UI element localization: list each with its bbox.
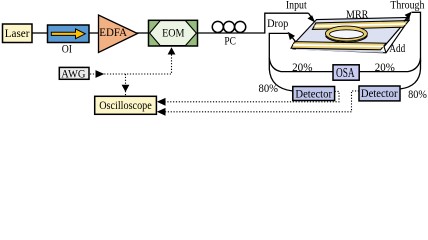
svg-text:EDFA: EDFA (99, 25, 127, 39)
laser box (3, 24, 33, 43)
drop wire left riser (269, 33, 288, 60)
svg-text:Add: Add (389, 43, 405, 55)
svg-text:AWG: AWG (61, 68, 86, 81)
svg-text:Drop: Drop (267, 18, 288, 30)
svg-text:Through: Through (390, 0, 424, 11)
arrowhead 2 into oscilloscope right (157, 108, 166, 116)
AWG box (59, 67, 89, 79)
isolator arrow glyph (51, 29, 85, 39)
detector left box (293, 87, 335, 101)
wire OI to EDFA (89, 32, 99, 34)
MRR chip side faces (293, 17, 409, 52)
svg-text:OSA: OSA (336, 65, 355, 80)
through wire right riser (412, 12, 421, 62)
svg-text:Laser: Laser (5, 26, 30, 40)
through arrow out of chip (404, 16, 408, 21)
right splitter 80% branch (400, 60, 421, 89)
svg-text:Detector: Detector (295, 86, 332, 100)
svg-text:80%: 80% (259, 81, 279, 95)
arrowhead into EOM (168, 47, 176, 54)
amplifier EDFA (99, 15, 138, 53)
svg-text:EOM: EOM (162, 26, 185, 40)
left splitter 80% branch (269, 60, 293, 91)
isolator OI box (48, 25, 90, 43)
drop arrow out of chip (293, 38, 297, 42)
svg-text:Oscilloscope: Oscilloscope (99, 98, 152, 112)
bottom bus waveguide (291, 42, 386, 50)
dotted AWG to EOM line (90, 55, 172, 75)
svg-text:20%: 20% (292, 60, 312, 74)
svg-text:MRR: MRR (346, 9, 369, 21)
right splitter 20% branch (359, 58, 420, 72)
wire Laser to OI (32, 32, 47, 34)
modulator EOM box (149, 20, 198, 46)
polarization controller PC loops (212, 21, 223, 32)
wire EOM to PC riser (196, 13, 309, 33)
dotted line left detector to oscilloscope (166, 91, 340, 101)
svg-text:20%: 20% (375, 60, 395, 74)
svg-text:Input: Input (286, 0, 308, 11)
top bus waveguide (312, 21, 409, 30)
oscilloscope box (95, 96, 157, 114)
dotted branch down to oscilloscope (125, 74, 127, 96)
dotted line right detector to oscilloscope (166, 91, 360, 112)
AWG flow arrowhead (96, 70, 105, 78)
svg-text:PC: PC (224, 36, 236, 48)
microring (325, 26, 367, 42)
detector right box (359, 86, 400, 101)
MRR chip top face (293, 17, 409, 46)
wire EDFA to EOM (136, 32, 149, 34)
OSA box (333, 65, 359, 80)
arrowhead 1 into oscilloscope right (157, 98, 166, 106)
side face shading band (296, 49, 383, 52)
EOM hexagon (150, 21, 197, 46)
svg-text:OI: OI (62, 43, 72, 55)
svg-text:80%: 80% (408, 87, 427, 101)
chip front-right corner edge (384, 47, 386, 53)
input arrow into chip (309, 13, 312, 17)
arrowhead into oscilloscope (122, 85, 130, 92)
left splitter 20% branch (269, 58, 333, 72)
svg-text:Detector: Detector (361, 86, 398, 100)
